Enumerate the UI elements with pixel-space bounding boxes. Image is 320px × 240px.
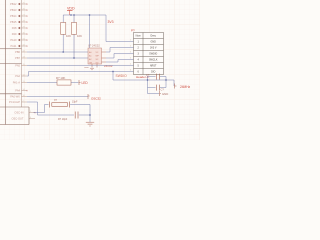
wire: MCU PA5 to header row5 [27, 65, 134, 67]
net port 24MHz [175, 84, 191, 90]
MCU U1 body sections [0, 0, 29, 125]
wire: MCU PA1 to resistor R3 [27, 82, 57, 84]
svg-text:VC: VC [96, 52, 99, 54]
svg-text:PA10: PA10 [10, 38, 17, 42]
node: R2 to SDA [73, 57, 75, 59]
svg-text:SWDIO: SWDIO [149, 53, 157, 56]
resistor R2 [71, 15, 82, 58]
wire: crystal/cap right join [89, 105, 91, 123]
svg-text:GND: GND [162, 92, 168, 96]
node: crystal junctions [147, 79, 167, 81]
wire: SCL from MCU to U2 [27, 51, 88, 53]
svg-text:PA1-A: PA1-A [13, 81, 21, 85]
wire: U2 pin to header row4 [106, 60, 134, 63]
svg-text:PA0-WK: PA0-WK [10, 95, 20, 99]
power flag 3V3 top [67, 7, 75, 15]
svg-text:GND: GND [84, 67, 89, 69]
pin direction marks [18, 3, 20, 48]
crystal X1 [50, 99, 90, 108]
svg-text:PA9: PA9 [12, 32, 17, 36]
svg-text:LED: LED [82, 81, 89, 85]
wire: 3V3 drop to header row1 [106, 15, 134, 42]
svg-text:PB12: PB12 [10, 2, 17, 6]
svg-text:PA11: PA11 [11, 44, 18, 48]
capacitor C4 bottom row [148, 85, 167, 92]
node: cap join [89, 114, 91, 116]
wire: down to 24M port [173, 80, 175, 86]
svg-text:U? 24C02: U? 24C02 [88, 43, 100, 47]
wire: SDA from MCU to U2 [27, 57, 88, 59]
svg-text:OSC-OUT: OSC-OUT [12, 117, 24, 121]
resistor R3 [56, 76, 79, 85]
wire: to gnd port [148, 93, 160, 95]
wire: branch down to crystal block [113, 72, 174, 81]
svg-text:4: 4 [130, 58, 131, 60]
svg-text:15pF: 15pF [72, 101, 78, 104]
svg-text:2: 2 [130, 46, 131, 48]
svg-text:PA4: PA4 [15, 89, 20, 93]
MCU U1 right edge [21, 0, 23, 107]
svg-text:SWCLK: SWCLK [149, 59, 158, 62]
svg-text:PC13-HP: PC13-HP [9, 100, 20, 104]
svg-text:10K: 10K [77, 34, 82, 38]
wire: OSC-IN to crystal [34, 105, 49, 113]
svg-text:Num: Num [136, 35, 141, 38]
wire: MCU PA0 net [27, 96, 88, 98]
svg-text:C?: C? [161, 88, 165, 92]
svg-text:PA8: PA8 [12, 26, 17, 30]
svg-text:DIO: DIO [151, 71, 155, 74]
MCU pin stubs [22, 4, 36, 119]
svg-text:PB14: PB14 [10, 14, 17, 18]
svg-text:3V3: 3V3 [108, 20, 114, 24]
wire: MCU PC13 down to cap row [27, 102, 74, 115]
svg-text:PB6: PB6 [15, 50, 20, 54]
wire: MCU PA2 to header row6 [27, 72, 134, 77]
svg-text:SWDIO: SWDIO [116, 74, 128, 78]
node: rail junctions [70, 14, 90, 16]
header J1 table [130, 28, 164, 79]
svg-text:PB13: PB13 [10, 8, 17, 12]
svg-text:PA5: PA5 [15, 64, 20, 68]
svg-text:P?: P? [131, 28, 135, 32]
capacitor C3 top row [146, 73, 166, 80]
svg-text:R? 10K: R? 10K [56, 76, 65, 80]
wire: U2 pin to header row3 [106, 54, 134, 59]
svg-text:GND: GND [151, 41, 157, 44]
svg-text:VDD: VDD [67, 7, 75, 11]
capacitor C1 [58, 112, 90, 122]
svg-text:24MHz: 24MHz [180, 85, 191, 89]
svg-text:3V3 V: 3V3 V [150, 47, 157, 50]
svg-text:1: 1 [130, 40, 131, 42]
wire: caps right join [165, 77, 167, 88]
svg-text:PA2: PA2 [15, 74, 20, 78]
MCU pin names [9, 2, 24, 121]
svg-text:R? 10pF: R? 10pF [58, 118, 68, 121]
svg-text:3: 3 [130, 52, 131, 54]
svg-text:Desc: Desc [150, 35, 156, 38]
svg-text:OSC32: OSC32 [91, 96, 101, 100]
node: R1 to SCL [62, 51, 64, 53]
eeprom U2 [84, 43, 113, 69]
ground [86, 122, 94, 126]
wire: 3V3 drop to U2 VCC [89, 15, 91, 48]
wire: U2 pin to header row2 [106, 48, 134, 53]
svg-text:SC: SC [96, 59, 99, 61]
svg-text:OSC-IN: OSC-IN [14, 111, 23, 115]
net port GND right [160, 91, 169, 96]
resistor R1 [61, 15, 72, 52]
net port OSC32 [88, 94, 101, 100]
svg-text:PB7: PB7 [15, 56, 20, 60]
net port LED [79, 80, 88, 85]
MCU pin numbers [23, 2, 33, 119]
node: branch to osc flag [112, 71, 114, 73]
svg-text:6: 6 [130, 70, 131, 72]
svg-text:24C02: 24C02 [104, 64, 113, 68]
unconnected pin crosses [26, 3, 35, 113]
svg-text:PB15: PB15 [10, 20, 17, 24]
svg-text:5: 5 [130, 64, 131, 66]
svg-text:NRST: NRST [150, 65, 157, 68]
wire: 3V3 rail [63, 14, 106, 16]
wire: caps left join [147, 77, 149, 94]
svg-text:10K: 10K [66, 34, 71, 38]
